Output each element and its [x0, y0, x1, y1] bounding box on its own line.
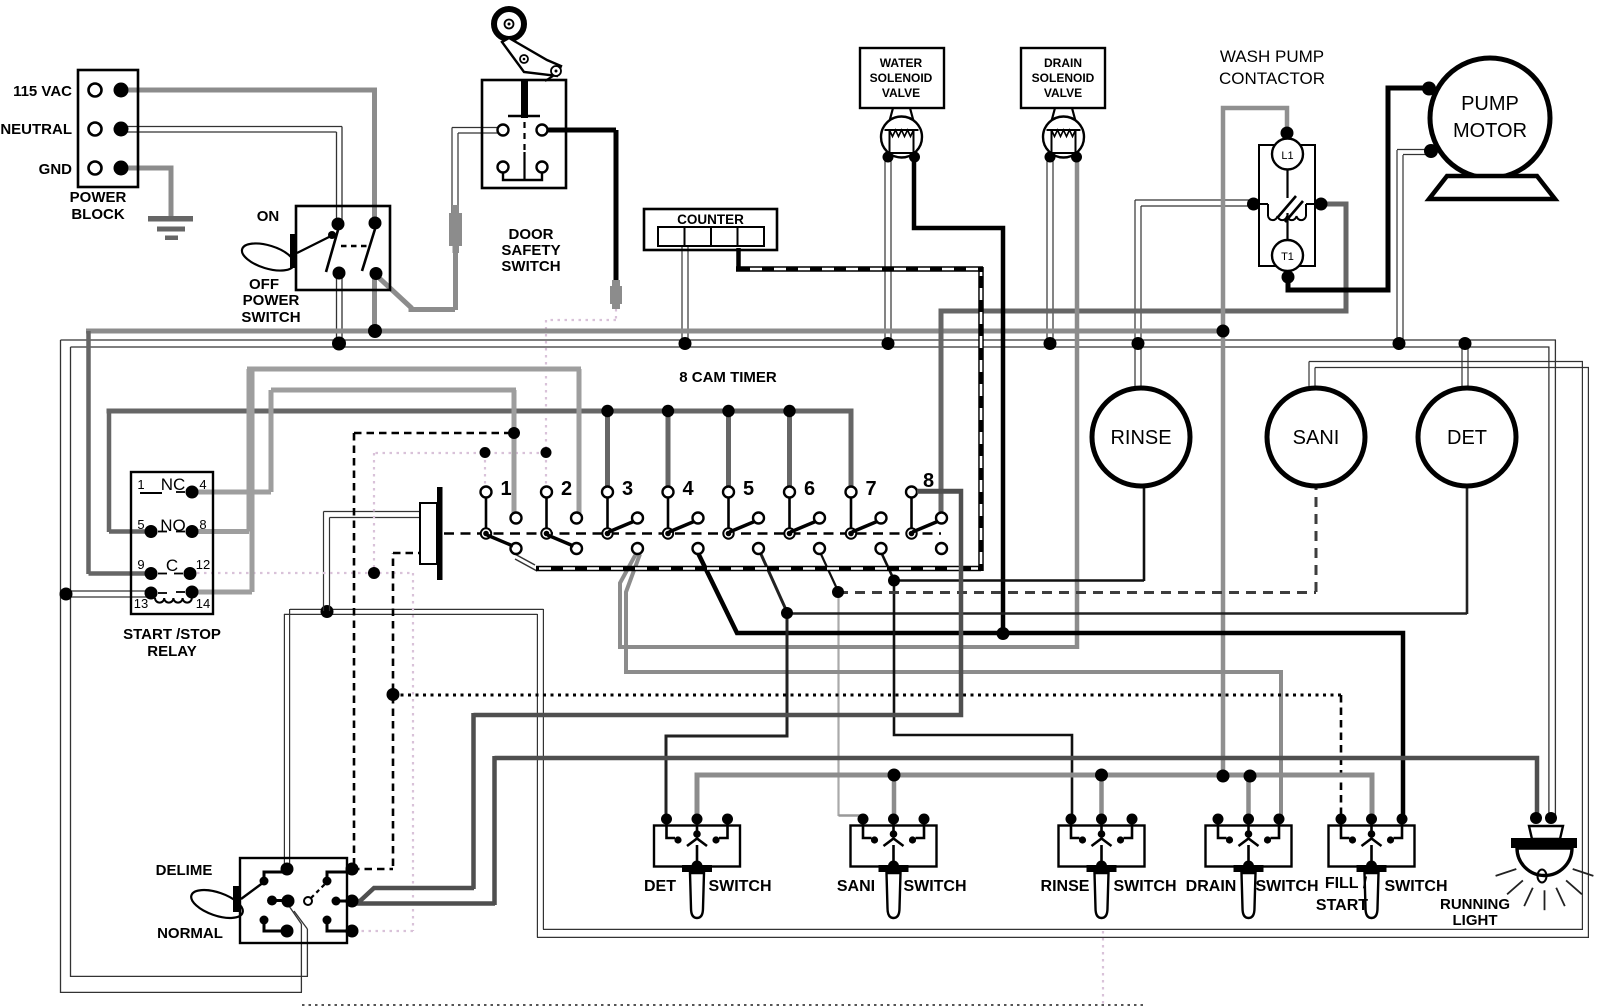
svg-text:POWER: POWER	[243, 292, 300, 309]
svg-text:SWITCH: SWITCH	[903, 878, 966, 895]
svg-text:C: C	[166, 556, 178, 575]
svg-text:DOOR: DOOR	[509, 226, 554, 243]
svg-text:OFF: OFF	[249, 276, 279, 293]
svg-text:SOLENOID: SOLENOID	[870, 71, 933, 85]
svg-text:DRAIN: DRAIN	[1186, 878, 1237, 895]
svg-text:RINSE: RINSE	[1110, 427, 1171, 449]
svg-text:SANI: SANI	[837, 878, 875, 895]
svg-text:SWITCH: SWITCH	[241, 309, 300, 326]
svg-text:SWITCH: SWITCH	[501, 258, 560, 275]
svg-text:LIGHT: LIGHT	[1453, 912, 1498, 929]
svg-text:8 CAM TIMER: 8 CAM TIMER	[679, 369, 777, 386]
svg-text:8: 8	[199, 517, 206, 532]
svg-text:4: 4	[682, 478, 694, 500]
svg-text:115 VAC: 115 VAC	[13, 83, 72, 100]
svg-text:8: 8	[923, 470, 934, 492]
svg-text:NORMAL: NORMAL	[157, 925, 223, 942]
svg-text:12: 12	[196, 557, 210, 572]
svg-text:DET: DET	[644, 878, 676, 895]
svg-text:WATER: WATER	[880, 56, 923, 70]
svg-text:6: 6	[804, 478, 815, 500]
svg-text:VALVE: VALVE	[1044, 86, 1082, 100]
svg-text:CONTACTOR: CONTACTOR	[1219, 69, 1325, 88]
svg-text:RUNNING: RUNNING	[1440, 896, 1510, 913]
svg-text:SWITCH: SWITCH	[1255, 878, 1318, 895]
svg-text:DELIME: DELIME	[156, 862, 213, 879]
svg-text:NEUTRAL: NEUTRAL	[0, 121, 72, 138]
svg-text:5: 5	[137, 517, 144, 532]
svg-text:T1: T1	[1281, 251, 1294, 263]
svg-text:START /STOP: START /STOP	[123, 626, 221, 643]
svg-text:SWITCH: SWITCH	[708, 878, 771, 895]
svg-text:9: 9	[137, 557, 144, 572]
svg-text:BLOCK: BLOCK	[71, 206, 124, 223]
svg-text:RINSE: RINSE	[1041, 878, 1090, 895]
svg-text:WASH PUMP: WASH PUMP	[1220, 47, 1324, 66]
svg-text:DET: DET	[1447, 427, 1487, 449]
svg-text:START: START	[1316, 897, 1368, 914]
svg-text:GND: GND	[39, 161, 73, 178]
svg-text:13: 13	[134, 596, 148, 611]
svg-text:FILL /: FILL /	[1325, 875, 1368, 892]
svg-text:5: 5	[743, 478, 754, 500]
svg-text:14: 14	[196, 596, 210, 611]
svg-text:7: 7	[865, 478, 876, 500]
svg-text:L1: L1	[1281, 150, 1293, 162]
svg-text:SANI: SANI	[1293, 427, 1340, 449]
svg-text:4: 4	[199, 477, 206, 492]
svg-text:1: 1	[500, 478, 511, 500]
svg-text:MOTOR: MOTOR	[1453, 120, 1527, 142]
svg-text:SAFETY: SAFETY	[501, 242, 560, 259]
svg-text:DRAIN: DRAIN	[1044, 56, 1082, 70]
svg-text:POWER: POWER	[70, 189, 127, 206]
svg-text:PUMP: PUMP	[1461, 93, 1519, 115]
svg-text:ON: ON	[257, 208, 280, 225]
svg-text:VALVE: VALVE	[882, 86, 920, 100]
svg-text:1: 1	[137, 477, 144, 492]
svg-text:2: 2	[561, 478, 572, 500]
svg-text:COUNTER: COUNTER	[677, 212, 744, 227]
svg-text:SWITCH: SWITCH	[1113, 878, 1176, 895]
svg-text:3: 3	[622, 478, 633, 500]
svg-text:SOLENOID: SOLENOID	[1032, 71, 1095, 85]
svg-text:RELAY: RELAY	[147, 643, 196, 660]
svg-text:SWITCH: SWITCH	[1384, 878, 1447, 895]
